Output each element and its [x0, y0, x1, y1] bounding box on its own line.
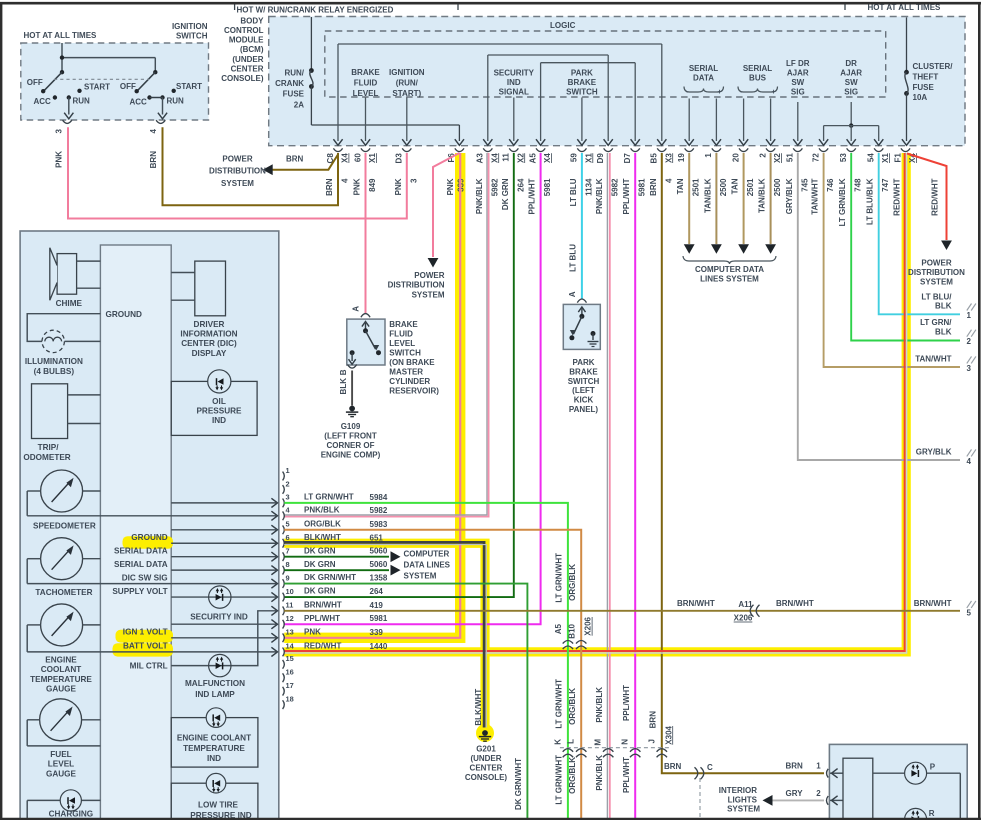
svg-text:10A: 10A: [913, 93, 928, 102]
svg-text:DISPLAY: DISPLAY: [192, 349, 227, 358]
fuse RUN/CRANK FUSE 2A: [310, 17, 312, 71]
svg-text:2: 2: [967, 337, 972, 346]
svg-text:5060: 5060: [370, 547, 388, 556]
svg-text:X4: X4: [490, 153, 499, 163]
BCM internal link C8-B5: [338, 43, 662, 45]
security ind lamp: [209, 586, 231, 608]
BCM pin 53: [847, 148, 856, 151]
svg-text:RUN/: RUN/: [284, 69, 304, 78]
wire PPL/WHT 5981 from pin D7 to bottom: [634, 153, 636, 820]
wire TAN/BLK 2500 pin 1: [715, 153, 717, 244]
svg-text:L: L: [567, 739, 576, 744]
svg-text:B10: B10: [567, 623, 576, 638]
svg-text:BLK: BLK: [339, 378, 348, 395]
svg-text:R: R: [929, 809, 935, 818]
svg-text:3: 3: [286, 493, 290, 502]
BCM pin 54/X1: [874, 148, 883, 151]
svg-text:SYSTEM: SYSTEM: [404, 572, 437, 581]
svg-text:5: 5: [286, 520, 290, 529]
svg-text:DISTRIBUTION: DISTRIBUTION: [209, 167, 266, 176]
highlight RED/WHT 1440 path: [284, 153, 906, 652]
svg-text:SYSTEM: SYSTEM: [727, 805, 760, 814]
svg-text:ORG/BLK: ORG/BLK: [568, 757, 577, 794]
svg-text:X2: X2: [773, 153, 782, 163]
svg-text:PPL/WHT: PPL/WHT: [622, 757, 631, 793]
pin A park brake switch: [577, 299, 586, 303]
svg-text:AJAR: AJAR: [840, 69, 862, 78]
svg-text:FLUID: FLUID: [354, 79, 378, 88]
contact START 1: [77, 89, 81, 93]
svg-text:ENGINE COMP): ENGINE COMP): [321, 451, 381, 460]
svg-text:LT BLU: LT BLU: [568, 244, 577, 272]
malfunction ind lamp: [209, 654, 231, 676]
highlight on BATT VOLT label: [113, 643, 174, 656]
highlight on IGN 1 VOLT label: [116, 630, 174, 643]
cluster pin 7: [283, 552, 285, 561]
pin B contact: [350, 350, 355, 355]
svg-text:HOT W/ RUN/CRANK RELAY ENERGIZ: HOT W/ RUN/CRANK RELAY ENERGIZED: [237, 6, 394, 15]
svg-text:20: 20: [731, 153, 740, 162]
svg-text:LT GRN/: LT GRN/: [920, 318, 952, 327]
ground G201: [482, 730, 488, 736]
svg-text:CONSOLE): CONSOLE): [465, 773, 508, 782]
svg-text:LT BLU/BLK: LT BLU/BLK: [866, 178, 875, 225]
module internal block: [843, 758, 873, 820]
svg-text:DK GRN: DK GRN: [304, 560, 336, 569]
oil pressure ind loop: [171, 381, 257, 435]
svg-text:(BCM): (BCM): [240, 45, 264, 54]
svg-text:X1: X1: [368, 153, 377, 163]
svg-text:339: 339: [370, 628, 384, 637]
connector X304 pin K (LT GRN/WHT): [563, 749, 573, 758]
svg-text:1: 1: [816, 762, 821, 771]
svg-text:X1: X1: [881, 153, 890, 163]
contact RUN 1: [67, 95, 71, 99]
svg-text:(UNDER: (UNDER: [470, 754, 501, 763]
highlight on GROUND label: [123, 536, 174, 549]
svg-text:746: 746: [826, 178, 835, 192]
svg-text:PNK/BLK: PNK/BLK: [595, 755, 604, 791]
svg-text:OFF: OFF: [27, 78, 43, 87]
svg-text:START): START): [392, 89, 421, 98]
svg-text:SIG: SIG: [844, 88, 858, 97]
cluster pin 13: [283, 633, 285, 642]
junction DR AJAR: [849, 123, 853, 127]
svg-text:LT GRN/WHT: LT GRN/WHT: [555, 679, 564, 729]
wire PNK 3 from pin D3 to ignition pin 3: [68, 127, 407, 218]
svg-text:IND: IND: [207, 754, 221, 763]
svg-text:ORG/BLK: ORG/BLK: [568, 688, 577, 725]
svg-text:LT BLU/: LT BLU/: [921, 292, 952, 301]
svg-text:1: 1: [286, 466, 290, 475]
svg-text:INTERIOR: INTERIOR: [719, 786, 757, 795]
BCM pin A5/X4: [536, 148, 545, 151]
wire TAN 2501 pin 19: [688, 153, 690, 244]
svg-text:TAN: TAN: [731, 178, 740, 194]
BCM pin D3: [402, 148, 411, 151]
connector X304 pin J (BRN): [657, 749, 667, 758]
ignition pin 4: [156, 120, 165, 123]
svg-text:X4: X4: [341, 153, 350, 163]
svg-text:SWITCH: SWITCH: [176, 32, 208, 41]
svg-text:SERIAL: SERIAL: [689, 64, 718, 73]
svg-text:2: 2: [758, 153, 767, 158]
svg-text:51: 51: [786, 153, 795, 162]
svg-text:DISTRIBUTION: DISTRIBUTION: [388, 281, 445, 290]
wire ORG/BLK 5983 from cluster pin 5 to bottom: [284, 530, 581, 820]
svg-text:LEVEL: LEVEL: [48, 760, 74, 769]
svg-text:ORG/BLK: ORG/BLK: [568, 564, 577, 601]
svg-text:651: 651: [370, 533, 384, 542]
svg-text:POWER: POWER: [921, 259, 951, 268]
cluster ground bus bar: [100, 245, 171, 820]
svg-text:DK GRN/WHT: DK GRN/WHT: [304, 573, 356, 582]
svg-text:19: 19: [677, 153, 686, 162]
svg-text:SERIAL DATA: SERIAL DATA: [114, 547, 168, 556]
cluster pin 15: [283, 660, 285, 669]
svg-text:DIC SW SIG: DIC SW SIG: [122, 573, 168, 582]
svg-text:3: 3: [55, 128, 64, 133]
svg-text:(4 BULBS): (4 BULBS): [34, 367, 75, 376]
wire BRN branch to power distribution arrow: [265, 155, 339, 170]
svg-text:G109: G109: [341, 422, 361, 431]
svg-text:2: 2: [286, 479, 290, 488]
engine coolant temperature gauge: [41, 604, 83, 646]
highlight PNK 339 path: [284, 153, 460, 638]
svg-text:DR: DR: [845, 59, 857, 68]
svg-text:IGNITION: IGNITION: [172, 22, 208, 31]
trip/odometer: [32, 384, 68, 439]
module wire to lamp R: [873, 818, 904, 820]
wire TAN 2501 pin 20: [743, 153, 745, 244]
driver information center display: [195, 261, 226, 316]
svg-text:GRY/BLK: GRY/BLK: [785, 178, 794, 214]
lamp R: [905, 808, 927, 820]
svg-text:X1: X1: [584, 153, 593, 163]
svg-text:ORG/BLK: ORG/BLK: [304, 519, 341, 528]
svg-text:SWITCH: SWITCH: [566, 88, 598, 97]
svg-text:FUSE: FUSE: [283, 90, 305, 99]
cluster pin 4: [283, 511, 285, 520]
label HOT W/ RUN/CRANK RELAY ENERGIZED: [235, 2, 458, 4]
instrument cluster box: [20, 231, 279, 820]
svg-text:BRN/WHT: BRN/WHT: [776, 599, 814, 608]
svg-text:LT GRN/WHT: LT GRN/WHT: [304, 493, 354, 502]
tachometer gauge: [41, 538, 83, 580]
svg-text:8: 8: [286, 560, 290, 569]
svg-text:4: 4: [149, 128, 158, 133]
svg-text:C: C: [707, 763, 713, 772]
svg-text:BLK/WHT: BLK/WHT: [474, 689, 483, 726]
svg-text:CLUSTER/: CLUSTER/: [913, 62, 954, 71]
svg-text:PARK: PARK: [571, 69, 593, 78]
svg-text:264: 264: [516, 178, 525, 192]
BCM pin D7: [631, 148, 640, 151]
svg-text:G201: G201: [476, 745, 496, 754]
cluster wire row 10 supply volt / security ind: [171, 596, 276, 598]
svg-text:BATT VOLT: BATT VOLT: [123, 642, 168, 651]
connector X304 pin M (PNK/BLK): [603, 749, 613, 758]
svg-text:PNK: PNK: [446, 178, 455, 195]
svg-text:F1: F1: [893, 153, 902, 163]
svg-text:LT GRN/WHT: LT GRN/WHT: [555, 553, 564, 603]
svg-text:BRN/WHT: BRN/WHT: [304, 600, 342, 609]
cluster pin 17: [283, 687, 285, 696]
speedometer gauge: [41, 470, 83, 512]
contact ACC 2: [147, 95, 151, 99]
svg-text:MODULE: MODULE: [229, 36, 264, 45]
svg-text:B: B: [339, 369, 348, 375]
svg-text:4: 4: [341, 178, 350, 183]
svg-text:LT GRN/BLK: LT GRN/BLK: [838, 178, 847, 226]
svg-text:N: N: [621, 739, 630, 745]
svg-text:SW: SW: [845, 78, 858, 87]
wire RED/WHT from pin F1 to cluster pin 14 (highlighted): [284, 153, 904, 651]
svg-text:SPEEDOMETER: SPEEDOMETER: [33, 521, 96, 530]
svg-text:419: 419: [370, 601, 384, 610]
cluster pin 2: [283, 485, 285, 494]
svg-text:PARK: PARK: [572, 358, 594, 367]
svg-text:1: 1: [967, 311, 972, 320]
svg-text:1358: 1358: [370, 574, 388, 583]
svg-text:D7: D7: [623, 153, 632, 164]
connector X304 pin N (PPL/WHT): [630, 749, 640, 758]
svg-text:K: K: [553, 739, 562, 745]
ignition pin 3: [63, 120, 72, 123]
wire RED/WHT branch to power distribution: [907, 154, 947, 241]
svg-text:THEFT: THEFT: [913, 72, 939, 81]
svg-text:DK GRN/WHT: DK GRN/WHT: [514, 758, 523, 810]
svg-text:5982: 5982: [370, 506, 388, 515]
svg-text:IND: IND: [212, 416, 226, 425]
svg-text:CRANK: CRANK: [275, 79, 304, 88]
svg-text:IND: IND: [507, 78, 521, 87]
svg-text:GAUGE: GAUGE: [46, 769, 77, 778]
cluster wire row 3: [171, 502, 276, 504]
BCM pin C8/X4: [333, 148, 342, 151]
BCM pin B5/X3: [657, 148, 666, 151]
wire LT GRN/BLK 748 from pin 53 to terminal 2: [851, 153, 960, 341]
svg-text:A11: A11: [738, 600, 753, 609]
highlight BLK/WHT 651 path: [284, 543, 485, 727]
svg-text:MASTER: MASTER: [389, 368, 423, 377]
svg-text:3: 3: [409, 178, 418, 183]
BCM pin 19: [685, 148, 694, 151]
svg-text:1134: 1134: [584, 178, 593, 196]
svg-text:TACHOMETER: TACHOMETER: [35, 588, 92, 597]
svg-text:X3: X3: [664, 153, 673, 163]
BCM pin 20: [739, 148, 748, 151]
svg-text:54: 54: [867, 153, 876, 162]
svg-text:7: 7: [286, 547, 290, 556]
wire GRY/BLK 745 from pin 51 to terminal 4: [798, 153, 960, 460]
cluster wire row 14 BATT VOLT (ECT gauge): [27, 651, 276, 653]
svg-text:BRN: BRN: [286, 155, 304, 164]
connector C on BRN: [701, 767, 704, 779]
svg-text:PNK: PNK: [394, 178, 403, 195]
svg-text:X2: X2: [516, 153, 525, 163]
svg-text:MALFUNCTION: MALFUNCTION: [185, 679, 245, 688]
svg-text:HOT AT ALL TIMES: HOT AT ALL TIMES: [868, 3, 942, 12]
wire RUN 2 to pin 4: [162, 98, 164, 115]
cluster wire row 9 DIC SW SIG (tachometer): [27, 583, 276, 585]
svg-text:DATA LINES: DATA LINES: [404, 561, 451, 570]
svg-text:PPL/WHT: PPL/WHT: [304, 614, 340, 623]
svg-text:1440: 1440: [370, 642, 388, 651]
svg-text:14: 14: [286, 642, 295, 651]
cluster pin 8: [283, 566, 285, 575]
svg-text:TAN/BLK: TAN/BLK: [703, 178, 712, 213]
svg-text:ILLUMINATION: ILLUMINATION: [25, 357, 83, 366]
svg-text:LT GRN/WHT: LT GRN/WHT: [555, 755, 564, 805]
svg-text:BRAKE: BRAKE: [389, 320, 418, 329]
brake fluid switch contacts: [365, 323, 367, 330]
svg-text:IGN 1 VOLT: IGN 1 VOLT: [123, 628, 168, 637]
svg-text:CHIME: CHIME: [56, 299, 83, 308]
ignition switch pole 1: [60, 70, 64, 74]
svg-text:POWER: POWER: [222, 155, 252, 164]
wire RUN 1 to pin 3: [68, 98, 70, 115]
BCM pin F6: [455, 148, 464, 151]
cluster wire row 8 serial data: [171, 569, 276, 571]
svg-text:PNK/BLK: PNK/BLK: [304, 505, 340, 514]
svg-text:FLUID: FLUID: [389, 330, 413, 339]
wire PNK 849 from pin 60 to brake fluid level switch: [365, 153, 367, 314]
svg-text:P: P: [930, 762, 936, 771]
svg-text:RED/WHT: RED/WHT: [931, 178, 940, 215]
svg-text:SYSTEM: SYSTEM: [412, 290, 445, 299]
cluster pin 3: [283, 499, 285, 508]
svg-text:TAN/BLK: TAN/BLK: [758, 178, 767, 213]
svg-text:2500: 2500: [773, 178, 782, 196]
svg-text:5983: 5983: [370, 520, 388, 529]
BCM pin F1/X4: [901, 148, 910, 151]
BCM pin 72: [819, 148, 828, 151]
svg-text:SECURITY IND: SECURITY IND: [190, 612, 248, 621]
svg-text:CORNER OF: CORNER OF: [327, 441, 375, 450]
svg-text:5981: 5981: [543, 178, 552, 196]
BCM internal link A5-D7: [541, 62, 636, 64]
svg-text:LOW TIRE: LOW TIRE: [198, 801, 239, 810]
svg-text:ACC: ACC: [34, 97, 52, 106]
svg-text:2A: 2A: [294, 100, 304, 109]
svg-text:SECURITY: SECURITY: [494, 69, 535, 78]
svg-text:INFORMATION: INFORMATION: [180, 330, 237, 339]
cluster pin 14: [283, 648, 285, 657]
module pin 2: [827, 796, 829, 805]
svg-text:16: 16: [286, 668, 294, 677]
ground G109: [349, 406, 355, 412]
cluster wire row 4 (speedometer): [27, 515, 276, 517]
svg-text:M: M: [594, 739, 603, 746]
svg-text:72: 72: [811, 153, 820, 162]
svg-text:(LEFT: (LEFT: [572, 386, 595, 395]
svg-text:LT BLU: LT BLU: [569, 178, 578, 206]
svg-text:5981: 5981: [370, 614, 388, 623]
svg-text:A5: A5: [554, 623, 563, 634]
svg-text:SIGNAL: SIGNAL: [499, 88, 529, 97]
cluster pin 10: [283, 593, 285, 602]
svg-text:PNK: PNK: [55, 151, 64, 168]
brace computer data lines: [683, 256, 776, 264]
BCM pin 11/X2: [509, 148, 518, 151]
jumper ACC-RUN 2: [150, 97, 163, 99]
svg-text:SIG: SIG: [791, 88, 805, 97]
svg-text:RUN: RUN: [167, 97, 185, 106]
svg-text:PNK/BLK: PNK/BLK: [595, 178, 604, 214]
svg-text:GROUND: GROUND: [131, 533, 167, 542]
svg-text:CENTER (DIC): CENTER (DIC): [181, 339, 237, 348]
park brake switch contacts: [581, 309, 583, 316]
svg-text:SW: SW: [791, 78, 804, 87]
svg-text:LINES SYSTEM: LINES SYSTEM: [700, 275, 759, 284]
svg-text:59: 59: [570, 153, 579, 162]
connector X206 pin B10 (ORG/BLK): [576, 641, 586, 650]
svg-text:CENTER: CENTER: [231, 64, 264, 73]
svg-text:3: 3: [967, 364, 972, 373]
wire LT GRN/WHT 5984 from cluster pin 3 to bottom: [284, 503, 568, 820]
svg-text:GRY: GRY: [786, 789, 804, 798]
wire PNK 339 from pin F6 to cluster pin 13 (highlighted): [284, 153, 460, 638]
svg-text:11: 11: [502, 153, 511, 162]
svg-text:BRN: BRN: [664, 762, 682, 771]
junction feed: [60, 55, 64, 59]
svg-text:+: +: [717, 87, 722, 96]
wire DK GRN 5060 cluster pin 7: [284, 556, 389, 558]
BCM pin 60/X1: [361, 148, 370, 151]
svg-text:(LEFT FRONT: (LEFT FRONT: [324, 432, 377, 441]
svg-text:A: A: [568, 291, 577, 297]
svg-text:2500: 2500: [719, 178, 728, 196]
svg-text:12: 12: [286, 614, 294, 623]
svg-text:OFF: OFF: [120, 82, 136, 91]
svg-text:A3: A3: [476, 153, 485, 164]
svg-text:4: 4: [967, 457, 972, 466]
module internal wires: [830, 772, 843, 774]
chime speaker: [57, 254, 77, 295]
svg-text:START: START: [176, 82, 202, 91]
wire TAN/WHT 746 from pin 72 to terminal 3: [824, 153, 960, 367]
svg-text:D9: D9: [596, 153, 605, 164]
BCM pin A3/X4: [483, 148, 492, 151]
svg-text:GROUND: GROUND: [106, 310, 142, 319]
svg-text:ENGINE: ENGINE: [45, 656, 77, 665]
svg-text:DRIVER: DRIVER: [194, 320, 225, 329]
interior lamps module box (bottom right): [829, 744, 967, 820]
cluster wire row 6 GROUND: [171, 542, 276, 544]
illumination bulb: [42, 330, 64, 352]
svg-text:X206: X206: [734, 614, 753, 623]
svg-text:5060: 5060: [370, 560, 388, 569]
cluster wire MIL ctrl to pin 11: [171, 611, 276, 666]
svg-text:X304: X304: [664, 725, 673, 744]
engine coolant temperature ind: [171, 718, 258, 768]
svg-text:(RUN/: (RUN/: [396, 79, 419, 88]
svg-text:BLK: BLK: [935, 328, 952, 337]
svg-text:TAN/WHT: TAN/WHT: [915, 355, 951, 364]
svg-text:2501: 2501: [692, 178, 701, 196]
svg-text:RESERVOIR): RESERVOIR): [389, 387, 439, 396]
svg-text:10: 10: [286, 587, 294, 596]
svg-text:CONTROL: CONTROL: [224, 26, 264, 35]
wire PNK/BLK 5982 from pin D9 to bottom: [606, 153, 608, 820]
svg-text:DATA: DATA: [693, 74, 714, 83]
svg-text:CYLINDER: CYLINDER: [389, 377, 430, 386]
svg-text:PNK/BLK: PNK/BLK: [595, 687, 604, 723]
svg-text:SYSTEM: SYSTEM: [221, 179, 254, 188]
svg-text:CHARGING: CHARGING: [49, 810, 94, 819]
brake fluid level switch box: [347, 319, 385, 365]
